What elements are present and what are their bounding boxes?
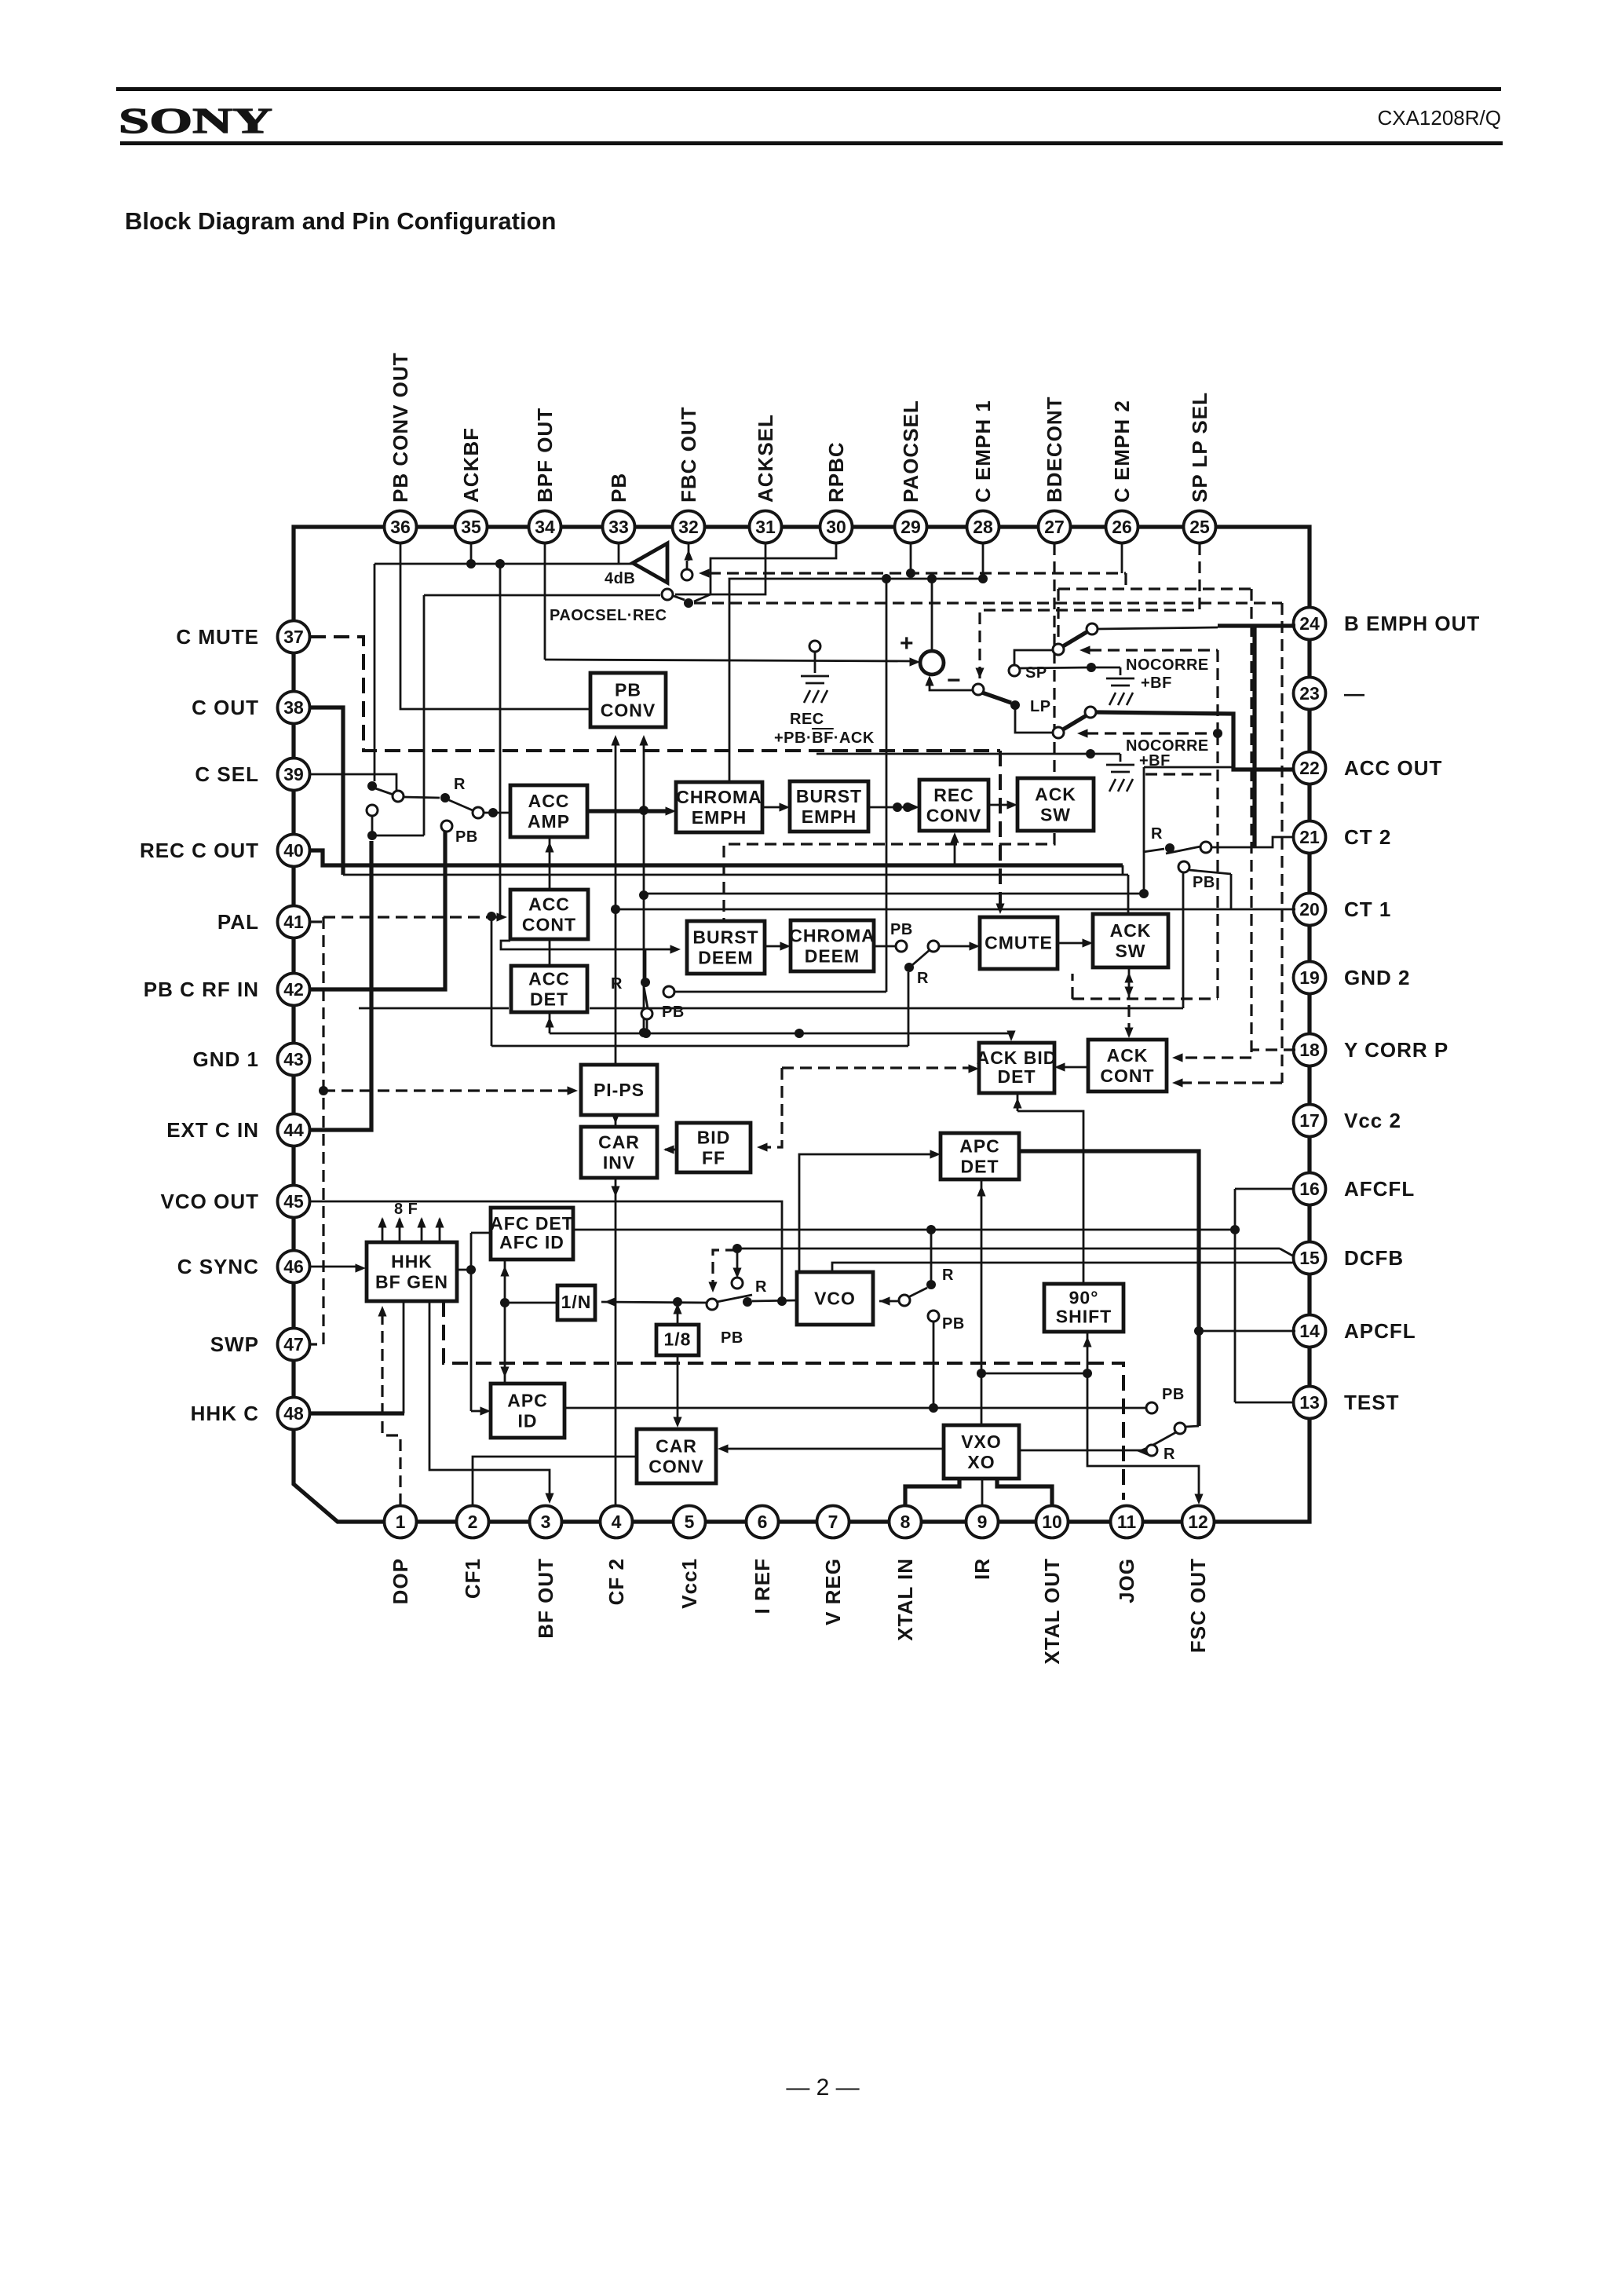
wire CT1 line [616, 909, 1231, 911]
wire dashed into ACK CONT lower [1178, 1081, 1282, 1084]
svg-text:PB: PB [662, 1004, 685, 1021]
svg-text:EXT C IN: EXT C IN [166, 1118, 259, 1142]
block AFC DET / AFC ID [490, 1208, 574, 1260]
svg-text:APCFL: APCFL [1344, 1319, 1416, 1343]
svg-text:HHK: HHK [391, 1251, 433, 1271]
svg-text:SW: SW [1115, 941, 1145, 961]
svg-text:PB: PB [1162, 1386, 1185, 1403]
svg-text:30: 30 [826, 517, 846, 537]
svg-text:SHIFT: SHIFT [1056, 1307, 1112, 1327]
wire pin44 to EXT contact [310, 841, 371, 1130]
svg-text:1: 1 [396, 1512, 406, 1532]
block ACC CONT [510, 890, 588, 939]
wire CF1 to CAR CONV [473, 1457, 637, 1505]
wire pin35 stub [470, 543, 473, 564]
svg-text:CMUTE: CMUTE [985, 932, 1053, 952]
wire ACC AMP ACC CONT link [549, 837, 551, 890]
svg-text:REC C OUT: REC C OUT [140, 839, 259, 862]
svg-text:23: 23 [1299, 683, 1320, 704]
svg-text:REC: REC [933, 784, 974, 805]
svg-text:CONT: CONT [1100, 1066, 1154, 1086]
pin 14 APCFL [1294, 1315, 1326, 1347]
pin 11 JOG [1111, 1506, 1143, 1538]
wire 90shift to FSC [1087, 1373, 1199, 1500]
wire 1-N to AFC riser [505, 1302, 557, 1304]
pin 37 C MUTE [278, 621, 310, 653]
wire APC ID to PB contact [564, 1407, 1146, 1409]
pin 42 PB C RF IN [278, 974, 310, 1006]
svg-text:4: 4 [612, 1512, 622, 1532]
svg-text:EMPH: EMPH [692, 807, 747, 828]
wire pin27 dashed to BURST DEEM [1053, 543, 1055, 776]
svg-text:26: 26 [1112, 517, 1132, 537]
wire ACK SW2 dashed to ACK CONT [1127, 1005, 1130, 1033]
wire pin31 to PAOCSEL contact [675, 543, 765, 594]
wire CMUTE to ACK SW2 [1058, 942, 1087, 945]
wire PB CONV right trunk [643, 738, 645, 1033]
svg-text:GND 2: GND 2 [1344, 966, 1410, 989]
wire VXO to XTAL OUT [997, 1479, 1052, 1505]
svg-text:V REG: V REG [821, 1558, 845, 1625]
svg-text:PB: PB [942, 1315, 965, 1333]
svg-text:DET: DET [530, 989, 568, 1009]
wire dashed into ACK CONT upper [1178, 1056, 1251, 1058]
svg-text:BF OUT: BF OUT [534, 1558, 557, 1639]
block APC DET [941, 1133, 1019, 1179]
pin 48 HHK C [278, 1398, 310, 1430]
wire VXO to R contact [1019, 1450, 1146, 1452]
svg-text:REC: REC [790, 711, 824, 728]
svg-text:EMPH: EMPH [802, 806, 857, 827]
pin 20 CT 1 [1294, 894, 1326, 926]
pin 45 VCO OUT [278, 1186, 310, 1218]
wire VCO to APC DET [799, 1154, 934, 1272]
svg-text:DCFB: DCFB [1344, 1246, 1404, 1270]
svg-text:12: 12 [1188, 1512, 1208, 1532]
svg-text:ACC OUT: ACC OUT [1344, 756, 1442, 780]
wire summing to NOCORRE [1020, 667, 1090, 668]
svg-text:C SYNC: C SYNC [177, 1255, 259, 1278]
summing node [920, 651, 944, 675]
pin 46 C SYNC [278, 1251, 310, 1283]
wire HHK out to APC ID [457, 1269, 471, 1271]
block REC CONV [919, 780, 988, 831]
svg-text:— 2 —: — 2 — [786, 2075, 859, 2100]
wire ACC AMP to CHROMA EMPH [587, 809, 670, 813]
svg-text:BURST: BURST [692, 927, 758, 947]
svg-text:XTAL OUT: XTAL OUT [1040, 1558, 1064, 1665]
svg-text:APC: APC [507, 1390, 548, 1410]
svg-text:C SEL: C SEL [195, 762, 259, 786]
switch VCO right R [926, 1280, 936, 1289]
svg-text:ACKSEL: ACKSEL [754, 414, 777, 503]
pin 33 PB [603, 511, 635, 543]
svg-text:R: R [1164, 1446, 1175, 1463]
pin 27 BDECONT [1039, 511, 1071, 543]
svg-text:13: 13 [1299, 1392, 1320, 1413]
wire pin45 to VCO line [310, 1201, 782, 1300]
wire REC CONV to ACK SW [988, 804, 1011, 806]
wire pin26 stub [1121, 543, 1123, 573]
block CHROMA DEEM [789, 920, 875, 971]
wire dashed FBC select [699, 569, 710, 577]
svg-text:19: 19 [1299, 967, 1320, 988]
svg-text:Vcc1: Vcc1 [678, 1558, 701, 1609]
wire dashed into ACK BID DET [782, 1066, 973, 1069]
amplifier 4dB [633, 543, 667, 583]
svg-text:AFC DET: AFC DET [490, 1213, 574, 1234]
svg-text:CHROMA: CHROMA [676, 787, 762, 807]
pin 9 IR [966, 1506, 999, 1538]
svg-text:NOCORRE: NOCORRE [1126, 656, 1209, 674]
pin 23 &#8212; [1294, 678, 1326, 710]
block VXO XO [944, 1425, 1019, 1479]
pin 12 FSC OUT [1182, 1506, 1215, 1538]
switch VCO R-PB [736, 1249, 739, 1274]
svg-text:17: 17 [1299, 1110, 1320, 1131]
wire pin41 dashed to ACC CONT [310, 920, 323, 923]
svg-text:5: 5 [685, 1512, 695, 1532]
svg-text:CXA1208R/Q: CXA1208R/Q [1377, 106, 1501, 130]
block ACC AMP [510, 785, 587, 837]
wire APC DET output [981, 1179, 983, 1425]
wire dashed lever feed [694, 601, 1282, 604]
svg-text:R: R [454, 776, 466, 793]
wire pin18 dashed [1251, 1048, 1295, 1051]
pin 1 DOP [385, 1506, 417, 1538]
block VCO [797, 1272, 873, 1325]
wire amp input from pin30 [694, 543, 836, 601]
pin 41 PAL [278, 906, 310, 938]
pin 28 C EMPH 1 [967, 511, 999, 543]
capacitor NOCORRE+BF lower [1086, 749, 1095, 759]
svg-text:29: 29 [901, 517, 921, 537]
wire ACC OUT net [1096, 712, 1294, 770]
pin 29 PAOCSEL [895, 511, 927, 543]
svg-text:+PB·BF·ACK: +PB·BF·ACK [774, 729, 875, 747]
svg-text:9: 9 [977, 1512, 988, 1532]
block ACC DET [511, 966, 587, 1012]
pin 15 DCFB [1294, 1242, 1326, 1274]
pin 47 SWP [278, 1329, 310, 1361]
wire B EMPH OUT net [1098, 627, 1218, 629]
svg-text:Block Diagram and Pin Configur: Block Diagram and Pin Configuration [125, 207, 556, 235]
pin 17 Vcc 2 [1294, 1105, 1326, 1137]
svg-text:CT 1: CT 1 [1344, 898, 1391, 921]
wire ACK BID DET to ACK CONT [1061, 1066, 1088, 1069]
pin 40 REC C OUT [278, 835, 310, 867]
pin 44 EXT C IN [278, 1114, 310, 1146]
block CAR CONV [637, 1429, 716, 1483]
svg-text:B EMPH OUT: B EMPH OUT [1344, 612, 1480, 635]
svg-text:8 F: 8 F [394, 1201, 418, 1218]
wire BURST EMPH to REC CONV [868, 806, 913, 809]
switch FBC out contact [681, 569, 692, 580]
svg-text:47: 47 [283, 1334, 304, 1355]
wire CF2 trunk [615, 738, 617, 1065]
svg-text:36: 36 [390, 517, 411, 537]
svg-text:ACC: ACC [528, 894, 570, 914]
svg-text:AMP: AMP [528, 811, 570, 832]
svg-text:AFCFL: AFCFL [1344, 1177, 1415, 1201]
svg-text:44: 44 [283, 1120, 304, 1140]
svg-text:48: 48 [283, 1403, 304, 1424]
svg-text:FBC OUT: FBC OUT [677, 406, 700, 503]
svg-text:14: 14 [1299, 1321, 1320, 1341]
svg-text:PB: PB [607, 473, 630, 503]
block BURST EMPH [790, 781, 868, 832]
svg-text:11: 11 [1117, 1512, 1137, 1532]
block PI-PS [581, 1065, 657, 1115]
pin 36 PB CONV OUT [385, 511, 417, 543]
wire pin39 to switch [310, 774, 396, 791]
block PB CONV [590, 673, 666, 727]
svg-text:16: 16 [1299, 1179, 1320, 1199]
wire dashed DOP to HHK [382, 1307, 400, 1505]
pin 32 FBC OUT [673, 511, 705, 543]
wire APCFL R riser [930, 1230, 933, 1285]
wire VCO output line [752, 1300, 797, 1301]
svg-text:46: 46 [283, 1256, 304, 1277]
pin 21 CT 2 [1294, 821, 1326, 854]
svg-text:TEST: TEST [1344, 1391, 1399, 1414]
wire BURST to CHROMA DEEM [765, 945, 784, 948]
svg-text:APC: APC [959, 1135, 1000, 1156]
wire pin42 to PB contact [310, 832, 445, 989]
svg-text:8: 8 [901, 1512, 911, 1532]
svg-text:21: 21 [1299, 827, 1320, 847]
wire 90shift bottom [1087, 1332, 1089, 1373]
svg-text:2: 2 [468, 1512, 478, 1532]
pin 18 Y CORR P [1294, 1034, 1326, 1066]
svg-text:ACK BID: ACK BID [977, 1047, 1058, 1068]
svg-text:C OUT: C OUT [192, 696, 259, 719]
svg-text:FF: FF [702, 1147, 725, 1168]
svg-text:PB: PB [1193, 874, 1215, 891]
wire dashed HHK to JOG [444, 1301, 1123, 1500]
svg-text:FSC OUT: FSC OUT [1186, 1558, 1210, 1653]
svg-text:PAOCSEL: PAOCSEL [899, 400, 922, 503]
svg-text:VXO: VXO [961, 1431, 1002, 1452]
pin 24 B EMPH OUT [1294, 608, 1326, 640]
wire VCO to 1-N [601, 1302, 707, 1303]
wire pin48 to HHK [310, 1411, 404, 1415]
wire PAL R select net [908, 972, 910, 1046]
wire pin29 stub [910, 543, 912, 573]
wire pin43 dashed PI-PS feed [323, 1089, 572, 1091]
wire pin38 trunk [310, 707, 343, 875]
pin 31 ACKSEL [750, 511, 782, 543]
pin 2 CF1 [457, 1506, 489, 1538]
svg-text:CONV: CONV [926, 805, 981, 825]
switch C SEL record [367, 781, 377, 791]
svg-text:AFC ID: AFC ID [499, 1232, 564, 1252]
wire pin33 stub [618, 543, 620, 564]
svg-text:27: 27 [1044, 517, 1065, 537]
switch PB-R before CMUTE [896, 941, 907, 952]
svg-text:IR: IR [970, 1558, 994, 1580]
svg-text:PB C RF IN: PB C RF IN [144, 978, 259, 1001]
wire pin14 line [1199, 1330, 1295, 1333]
wire pin46 to HHK [310, 1266, 360, 1268]
block CHROMA EMPH [676, 782, 762, 832]
svg-text:7: 7 [828, 1512, 838, 1532]
svg-text:R: R [1151, 825, 1163, 843]
wire dashed pins26 crosslink [1124, 573, 1127, 589]
svg-text:C MUTE: C MUTE [176, 625, 259, 649]
svg-text:18: 18 [1299, 1040, 1320, 1060]
svg-text:C EMPH 1: C EMPH 1 [971, 400, 995, 503]
wire ACK BID DET bottom [1017, 1093, 1019, 1111]
switch FSC R-PB [1174, 1423, 1185, 1434]
svg-text:DEEM: DEEM [698, 947, 753, 967]
pin 3 BF OUT [530, 1506, 562, 1538]
svg-text:R: R [942, 1267, 954, 1284]
wire R switch feed [644, 893, 1144, 895]
wire VXO to XTAL IN [905, 1479, 959, 1505]
header bottom rule [120, 141, 1503, 145]
svg-text:43: 43 [283, 1049, 304, 1069]
svg-text:SP LP SEL: SP LP SEL [1188, 392, 1211, 503]
svg-text:PB: PB [615, 679, 641, 700]
wire DCFB line A [737, 1248, 1280, 1250]
pin 8 XTAL IN [890, 1506, 922, 1538]
svg-text:CAR: CAR [656, 1435, 697, 1456]
pin 25 SP LP SEL [1184, 511, 1216, 543]
block BID FF [677, 1123, 751, 1172]
switch SP-LP [973, 684, 984, 695]
header top rule [116, 87, 1501, 91]
svg-text:33: 33 [608, 517, 629, 537]
svg-text:20: 20 [1299, 899, 1320, 919]
wire VXO to CAR CONV [722, 1448, 944, 1450]
wire ACC DET bottom [549, 1012, 551, 1033]
wire pin25 dashed to SP-LP switch [980, 543, 1200, 682]
svg-text:32: 32 [678, 517, 699, 537]
svg-text:35: 35 [461, 517, 481, 537]
wire HHK to BF OUT [429, 1301, 550, 1499]
svg-text:CONV: CONV [648, 1456, 703, 1476]
svg-text:ID: ID [518, 1410, 538, 1431]
svg-text:PB: PB [455, 828, 478, 846]
wire pin36 to PB CONV [400, 543, 590, 709]
block ACK CONT [1088, 1040, 1167, 1091]
svg-text:BURST: BURST [796, 786, 862, 806]
svg-text:ACC: ACC [528, 968, 570, 989]
svg-text:28: 28 [973, 517, 993, 537]
svg-text:BID: BID [697, 1127, 731, 1147]
wire DCFB line B [832, 1263, 1294, 1272]
pin 10 XTAL OUT [1036, 1506, 1069, 1538]
contact CT1 PB [1178, 861, 1189, 872]
block ACK BID DET [977, 1043, 1058, 1093]
svg-text:+: + [900, 631, 914, 656]
svg-text:90°: 90° [1069, 1288, 1099, 1308]
svg-text:SWP: SWP [210, 1333, 259, 1356]
svg-text:PAOCSEL·REC: PAOCSEL·REC [550, 607, 667, 624]
svg-text:34: 34 [535, 517, 555, 537]
wire CHROMA DEEM to PB contact [874, 945, 896, 948]
block HHK BF GEN [367, 1242, 457, 1301]
wire PAOCSEL riser [423, 595, 426, 835]
svg-text:ACK: ACK [1110, 920, 1152, 941]
block 1/8 divider [656, 1325, 699, 1355]
svg-text:PI-PS: PI-PS [594, 1080, 645, 1100]
svg-text:ACC: ACC [528, 791, 570, 811]
svg-text:R: R [917, 970, 929, 987]
pin 7 V REG [817, 1506, 849, 1538]
wire summing input from pin34 [544, 543, 546, 660]
pin 38 C OUT [278, 692, 310, 724]
svg-text:I REF: I REF [751, 1558, 774, 1614]
wire BPF trunk to ACC CONT [499, 564, 502, 916]
wire CHROMA to BURST EMPH [762, 806, 784, 809]
svg-text:42: 42 [283, 979, 304, 1000]
wire AFC out to pins16 13 [573, 1229, 1235, 1231]
svg-text:SW: SW [1040, 804, 1071, 824]
block ACK SW (record) [1017, 778, 1094, 831]
svg-text:XTAL IN: XTAL IN [893, 1558, 917, 1641]
wire VXO to IR [981, 1479, 984, 1505]
svg-text:37: 37 [283, 627, 304, 647]
svg-text:GND 1: GND 1 [193, 1047, 259, 1071]
svg-text:25: 25 [1189, 517, 1210, 537]
svg-text:R: R [611, 975, 623, 993]
svg-text:PB: PB [721, 1329, 743, 1347]
svg-text:CT 2: CT 2 [1344, 825, 1391, 849]
svg-text:41: 41 [283, 912, 304, 932]
pin 6 I REF [747, 1506, 779, 1538]
svg-text:CF1: CF1 [461, 1558, 484, 1599]
svg-text:—: — [1344, 682, 1365, 705]
wire pin40 to REC CONV [310, 850, 1123, 865]
svg-text:DOP: DOP [389, 1558, 412, 1604]
svg-text:45: 45 [283, 1191, 304, 1212]
wire FBC riser to C SEL switch [374, 564, 376, 781]
svg-text:22: 22 [1299, 758, 1320, 778]
wire APC DET to switch riser [1021, 1151, 1199, 1426]
block ACK SW (playback) [1093, 914, 1168, 967]
svg-text:CONV: CONV [601, 700, 656, 720]
wire C EMPH1 to PB contact [886, 579, 888, 992]
svg-text:BDECONT: BDECONT [1043, 396, 1066, 503]
svg-text:BF GEN: BF GEN [375, 1271, 448, 1292]
block 90 deg SHIFT [1044, 1284, 1123, 1332]
svg-text:15: 15 [1299, 1248, 1320, 1268]
svg-text:31: 31 [755, 517, 776, 537]
wire BID FF to CAR INV [665, 1149, 677, 1151]
svg-text:Vcc 2: Vcc 2 [1344, 1109, 1401, 1132]
wire amp output bus [374, 563, 633, 565]
block APC ID [491, 1384, 564, 1438]
capacitor REC +PB.BF.ACK [809, 641, 820, 652]
wire 1-8 divider links [677, 1305, 679, 1325]
wire PAOCSEL-REC line [424, 594, 660, 597]
pin 43 GND 1 [278, 1044, 310, 1076]
pin 16 AFCFL [1294, 1173, 1326, 1205]
wire long playback bus [359, 1007, 509, 1010]
wire ACC CONT to BURST DEEM [501, 941, 674, 949]
wire pin28 to CHROMA EMPH [982, 543, 985, 579]
svg-text:6: 6 [758, 1512, 768, 1532]
svg-text:R: R [755, 1278, 767, 1296]
svg-text:1/N: 1/N [561, 1292, 592, 1312]
svg-text:CAR: CAR [598, 1132, 640, 1152]
svg-text:38: 38 [283, 697, 304, 718]
svg-text:DET: DET [998, 1066, 1036, 1087]
pin 19 GND 2 [1294, 962, 1326, 994]
svg-text:PAL: PAL [217, 910, 259, 934]
